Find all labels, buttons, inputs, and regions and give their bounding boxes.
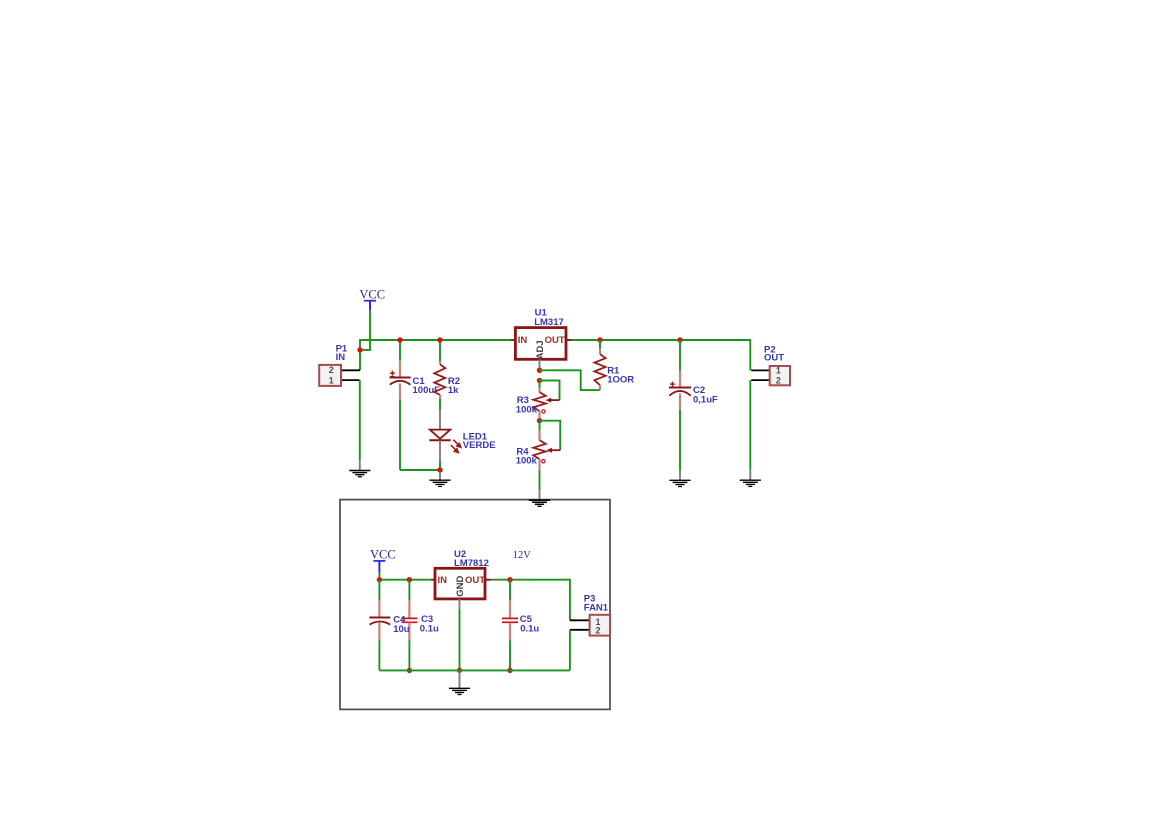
svg-text:VCC: VCC — [359, 288, 385, 302]
svg-text:2: 2 — [596, 626, 601, 636]
svg-text:0.1u: 0.1u — [520, 624, 539, 635]
svg-text:GND: GND — [455, 575, 466, 596]
svg-text:1: 1 — [776, 366, 781, 376]
svg-text:2: 2 — [329, 365, 334, 375]
svg-text:OUT: OUT — [465, 575, 485, 586]
svg-text:2: 2 — [776, 375, 781, 385]
svg-text:1OOR: 1OOR — [607, 374, 634, 385]
svg-text:0.1u: 0.1u — [420, 624, 439, 635]
svg-text:1: 1 — [329, 376, 334, 386]
svg-text:100k: 100k — [516, 456, 538, 467]
svg-text:12V: 12V — [513, 550, 532, 561]
svg-text:IN: IN — [438, 575, 448, 586]
svg-text:10u: 10u — [393, 624, 410, 635]
svg-text:VCC: VCC — [370, 547, 396, 561]
svg-text:IN: IN — [518, 335, 528, 346]
svg-text:IN: IN — [336, 352, 346, 363]
svg-text:0,1uF: 0,1uF — [693, 395, 718, 406]
svg-text:VERDE: VERDE — [463, 440, 496, 451]
svg-text:OUT: OUT — [545, 335, 565, 346]
svg-text:1k: 1k — [448, 385, 459, 396]
svg-text:100k: 100k — [516, 404, 538, 415]
svg-text:ADJ: ADJ — [535, 340, 546, 359]
svg-text:FAN1: FAN1 — [584, 603, 609, 614]
svg-text:OUT: OUT — [764, 352, 784, 363]
